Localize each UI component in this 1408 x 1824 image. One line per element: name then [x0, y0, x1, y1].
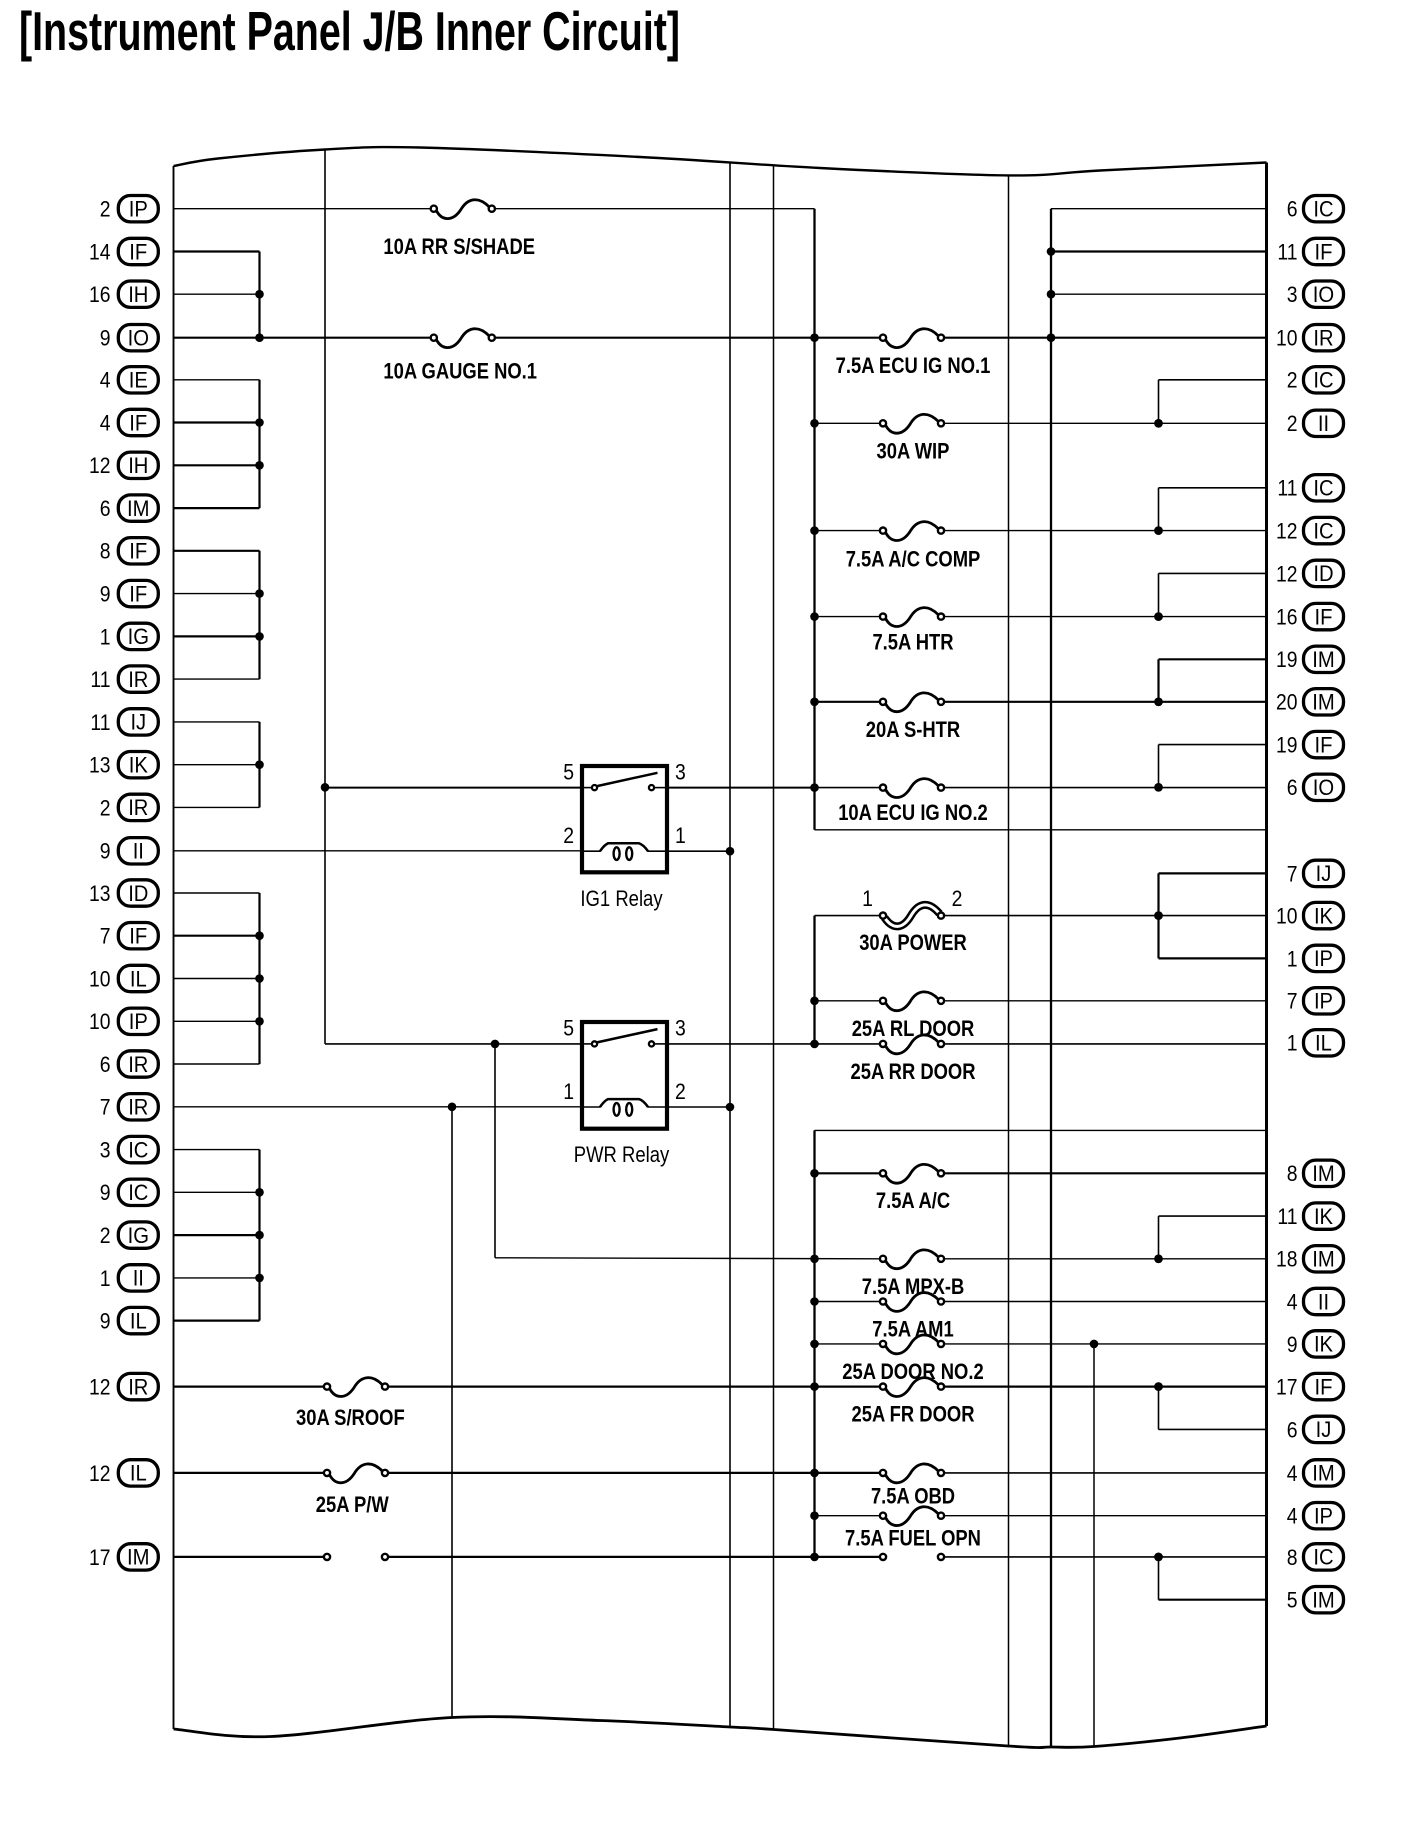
svg-text:1: 1 [675, 823, 686, 848]
svg-text:ID: ID [1313, 561, 1333, 586]
svg-text:20A S-HTR: 20A S-HTR [866, 717, 960, 742]
svg-text:16: 16 [1276, 605, 1298, 630]
svg-text:IL: IL [1315, 1031, 1332, 1056]
svg-text:IM: IM [1312, 1161, 1335, 1186]
svg-text:8: 8 [100, 539, 111, 564]
svg-text:PWR Relay: PWR Relay [574, 1142, 670, 1167]
svg-text:7.5A FUEL OPN: 7.5A FUEL OPN [845, 1525, 981, 1550]
svg-text:IK: IK [1314, 1204, 1333, 1229]
svg-text:IR: IR [128, 667, 148, 692]
svg-text:25A DOOR NO.2: 25A DOOR NO.2 [842, 1359, 983, 1384]
svg-text:IR: IR [128, 1095, 148, 1120]
svg-text:IP: IP [129, 1009, 148, 1034]
svg-text:2: 2 [1287, 411, 1298, 436]
svg-text:2: 2 [1287, 368, 1298, 393]
svg-text:IL: IL [130, 1308, 147, 1333]
svg-text:IC: IC [128, 1180, 148, 1205]
svg-text:4: 4 [1287, 1289, 1298, 1314]
svg-text:IP: IP [1314, 1504, 1333, 1529]
svg-text:1: 1 [100, 624, 111, 649]
svg-text:9: 9 [1287, 1332, 1298, 1357]
svg-text:1: 1 [862, 886, 873, 911]
svg-text:3: 3 [675, 760, 686, 785]
svg-text:1: 1 [1287, 1031, 1298, 1056]
svg-text:IM: IM [1312, 1588, 1335, 1613]
svg-text:17: 17 [1276, 1375, 1298, 1400]
svg-text:IL: IL [130, 1461, 147, 1486]
svg-text:IH: IH [128, 453, 148, 478]
svg-text:IF: IF [129, 539, 147, 564]
svg-text:IF: IF [1315, 604, 1333, 629]
svg-text:IC: IC [1313, 368, 1333, 393]
svg-text:IC: IC [1313, 1545, 1333, 1570]
svg-text:IC: IC [1313, 197, 1333, 222]
svg-text:2: 2 [675, 1079, 686, 1104]
svg-text:7.5A A/C COMP: 7.5A A/C COMP [846, 547, 981, 572]
svg-text:30A S/ROOF: 30A S/ROOF [296, 1405, 405, 1430]
svg-text:5: 5 [1287, 1588, 1298, 1613]
svg-text:IK: IK [129, 753, 148, 778]
svg-text:8: 8 [1287, 1545, 1298, 1570]
svg-text:25A P/W: 25A P/W [316, 1492, 389, 1517]
svg-text:2: 2 [100, 197, 111, 222]
svg-text:6: 6 [1287, 1417, 1298, 1442]
svg-text:2: 2 [100, 1223, 111, 1248]
svg-text:11: 11 [1277, 239, 1297, 264]
svg-text:IC: IC [128, 1137, 148, 1162]
svg-text:20: 20 [1276, 690, 1298, 715]
svg-text:IO: IO [1313, 775, 1334, 800]
svg-text:9: 9 [100, 839, 111, 864]
svg-text:25A FR DOOR: 25A FR DOOR [852, 1402, 975, 1427]
svg-text:4: 4 [1287, 1504, 1298, 1529]
svg-text:1: 1 [1287, 946, 1298, 971]
svg-text:IR: IR [128, 795, 148, 820]
svg-text:IG: IG [128, 1223, 149, 1248]
svg-text:11: 11 [90, 667, 110, 692]
svg-text:17: 17 [89, 1545, 111, 1570]
svg-text:11: 11 [90, 710, 110, 735]
svg-text:IF: IF [129, 924, 147, 949]
svg-text:9: 9 [100, 326, 111, 351]
svg-text:30A POWER: 30A POWER [859, 930, 967, 955]
svg-text:7.5A HTR: 7.5A HTR [872, 630, 953, 655]
svg-text:9: 9 [100, 1180, 111, 1205]
svg-text:1: 1 [563, 1079, 574, 1104]
svg-text:IP: IP [129, 197, 148, 222]
svg-text:5: 5 [563, 760, 574, 785]
svg-text:12: 12 [89, 453, 111, 478]
svg-text:IM: IM [127, 1545, 150, 1570]
svg-text:10A GAUGE NO.1: 10A GAUGE NO.1 [383, 358, 537, 383]
svg-text:8: 8 [1287, 1161, 1298, 1186]
svg-text:12: 12 [1276, 519, 1298, 544]
svg-text:5: 5 [563, 1016, 574, 1041]
svg-text:IR: IR [128, 1052, 148, 1077]
svg-text:7.5A MPX-B: 7.5A MPX-B [862, 1274, 965, 1299]
svg-text:IM: IM [1312, 1461, 1335, 1486]
svg-text:7.5A OBD: 7.5A OBD [871, 1484, 955, 1509]
svg-text:3: 3 [675, 1016, 686, 1041]
svg-text:IM: IM [1312, 1247, 1335, 1272]
svg-text:IF: IF [129, 581, 147, 606]
svg-text:IR: IR [1313, 326, 1333, 351]
svg-text:IM: IM [1312, 647, 1335, 672]
svg-text:3: 3 [100, 1138, 111, 1163]
svg-text:19: 19 [1276, 733, 1298, 758]
svg-text:3: 3 [1287, 282, 1298, 307]
svg-text:10A ECU IG NO.2: 10A ECU IG NO.2 [838, 800, 988, 825]
svg-text:IC: IC [1313, 518, 1333, 543]
svg-text:IL: IL [130, 966, 147, 991]
svg-text:7: 7 [100, 924, 111, 949]
svg-text:7: 7 [1287, 861, 1298, 886]
svg-text:11: 11 [1277, 1204, 1297, 1229]
svg-text:7.5A A/C: 7.5A A/C [876, 1188, 950, 1213]
svg-text:25A RR DOOR: 25A RR DOOR [851, 1059, 976, 1084]
svg-text:10A RR S/SHADE: 10A RR S/SHADE [383, 234, 535, 259]
svg-text:IG: IG [128, 624, 149, 649]
svg-text:IK: IK [1314, 903, 1333, 928]
svg-text:12: 12 [89, 1461, 111, 1486]
svg-text:II: II [133, 1266, 144, 1291]
svg-text:[Instrument Panel J/B Inner Ci: [Instrument Panel J/B Inner Circuit] [19, 0, 680, 62]
svg-text:30A WIP: 30A WIP [877, 438, 950, 463]
svg-text:IM: IM [1312, 690, 1335, 715]
svg-text:IO: IO [1313, 282, 1334, 307]
svg-text:IF: IF [1315, 732, 1333, 757]
svg-text:7.5A ECU IG NO.1: 7.5A ECU IG NO.1 [836, 353, 991, 378]
svg-text:10: 10 [1276, 904, 1298, 929]
svg-text:11: 11 [1277, 476, 1297, 501]
svg-text:13: 13 [89, 881, 111, 906]
svg-text:IJ: IJ [1316, 1417, 1332, 1442]
svg-text:10: 10 [1276, 326, 1298, 351]
svg-text:II: II [1318, 1289, 1329, 1314]
svg-text:IP: IP [1314, 989, 1333, 1014]
svg-text:13: 13 [89, 753, 111, 778]
svg-text:IF: IF [129, 239, 147, 264]
svg-text:1: 1 [100, 1266, 111, 1291]
svg-text:6: 6 [1287, 775, 1298, 800]
svg-text:10: 10 [89, 1009, 111, 1034]
svg-text:6: 6 [100, 1052, 111, 1077]
svg-text:IP: IP [1314, 946, 1333, 971]
svg-text:25A RL DOOR: 25A RL DOOR [852, 1016, 975, 1041]
svg-text:4: 4 [100, 368, 111, 393]
svg-text:14: 14 [89, 239, 111, 264]
svg-text:19: 19 [1276, 647, 1298, 672]
svg-text:IO: IO [128, 326, 149, 351]
svg-text:7.5A AM1: 7.5A AM1 [872, 1317, 953, 1342]
svg-text:10: 10 [89, 966, 111, 991]
svg-text:16: 16 [89, 282, 111, 307]
svg-text:IE: IE [129, 368, 148, 393]
svg-text:IG1 Relay: IG1 Relay [580, 886, 662, 911]
svg-text:IH: IH [128, 282, 148, 307]
svg-text:IR: IR [128, 1374, 148, 1399]
svg-text:7: 7 [100, 1095, 111, 1120]
svg-text:IF: IF [1315, 1374, 1333, 1399]
svg-text:4: 4 [100, 410, 111, 435]
svg-text:2: 2 [952, 886, 963, 911]
svg-text:12: 12 [1276, 561, 1298, 586]
svg-text:II: II [1318, 411, 1329, 436]
svg-text:IF: IF [129, 410, 147, 435]
svg-text:II: II [133, 839, 144, 864]
svg-text:2: 2 [563, 823, 574, 848]
svg-text:IJ: IJ [1316, 861, 1332, 886]
svg-text:18: 18 [1276, 1247, 1298, 1272]
svg-text:IM: IM [127, 496, 150, 521]
svg-text:6: 6 [1287, 197, 1298, 222]
svg-text:4: 4 [1287, 1461, 1298, 1486]
svg-text:6: 6 [100, 496, 111, 521]
svg-text:IC: IC [1313, 476, 1333, 501]
svg-text:ID: ID [128, 881, 148, 906]
svg-text:IJ: IJ [130, 710, 146, 735]
svg-text:12: 12 [89, 1375, 111, 1400]
svg-text:9: 9 [100, 582, 111, 607]
svg-text:IK: IK [1314, 1332, 1333, 1357]
svg-text:9: 9 [100, 1309, 111, 1334]
svg-text:IF: IF [1315, 239, 1333, 264]
svg-text:2: 2 [100, 795, 111, 820]
svg-text:7: 7 [1287, 989, 1298, 1014]
